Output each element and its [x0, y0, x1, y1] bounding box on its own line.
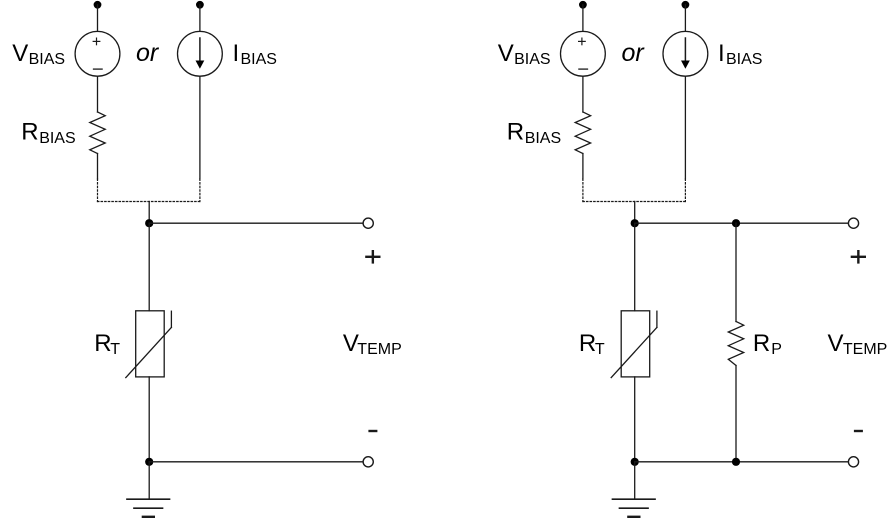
svg-text:BIAS: BIAS	[39, 130, 75, 147]
wire: VBIAS circle to RBIAS	[97, 76, 99, 112]
label + (right)	[852, 251, 865, 262]
ground (left)	[127, 499, 170, 517]
svg-text:P: P	[771, 341, 782, 358]
wire: RT to bottom junction	[148, 377, 150, 462]
thermistor RT (left)	[126, 311, 172, 378]
node E (right bottom junction)	[631, 458, 639, 466]
wire: RBIAS down	[97, 154, 99, 180]
label RT (left)	[94, 330, 120, 358]
wire: dotted left drop (right)	[582, 179, 584, 202]
wire: top junction to + terminal (right)	[635, 222, 849, 224]
node dot: top of VBIAS branch	[94, 1, 102, 9]
label IBIAS (right)	[718, 40, 762, 68]
node B (left bottom junction)	[145, 458, 153, 466]
wire: dotted right drop (right)	[684, 179, 686, 202]
label + (left)	[366, 251, 379, 262]
svg-text:R: R	[21, 118, 38, 145]
voltage source VBIAS (right)	[561, 31, 606, 76]
svg-text:BIAS: BIAS	[726, 51, 762, 68]
terminal + (left, open circle)	[363, 218, 373, 228]
label RBIAS (right)	[507, 118, 561, 147]
svg-text:R: R	[579, 330, 596, 357]
node dot: top of VBIAS branch (right)	[579, 1, 587, 9]
label RT (right)	[579, 330, 605, 358]
resistor RP	[728, 322, 743, 366]
wire: top dot to IBIAS circle (right)	[684, 5, 686, 32]
svg-text:T: T	[110, 341, 120, 358]
label RBIAS (left)	[21, 118, 75, 147]
wire: bracket center to node (right)	[634, 202, 636, 224]
label - (right)	[855, 430, 862, 432]
current source IBIAS (left)	[178, 31, 223, 76]
label - (left)	[370, 430, 377, 432]
wire: RP branch bottom	[735, 366, 737, 462]
resistor RBIAS (right)	[575, 112, 590, 154]
label VTEMP (left)	[343, 330, 402, 358]
wire: junction down to RT	[148, 223, 150, 311]
wire: IBIAS circle down	[199, 76, 201, 179]
wire: RT to bottom junction (right)	[634, 377, 636, 462]
node dot: top of IBIAS branch	[196, 1, 204, 9]
wire: dotted right drop	[199, 179, 201, 202]
node D (RP top junction)	[732, 219, 740, 227]
resistor RBIAS (left)	[90, 112, 105, 154]
wire: top junction to + terminal	[149, 222, 363, 224]
svg-text:BIAS: BIAS	[514, 51, 550, 68]
terminal + (right, open circle)	[848, 218, 858, 228]
svg-text:or: or	[136, 39, 160, 67]
svg-text:V: V	[12, 40, 28, 67]
svg-text:V: V	[828, 330, 844, 357]
node C (right top junction)	[631, 219, 639, 227]
wire: bracket center to node	[148, 202, 150, 224]
wire: bottom junction to ground	[148, 462, 150, 499]
svg-text:T: T	[595, 341, 605, 358]
wire: bottom junction to ground (right)	[634, 462, 636, 499]
node A (left top junction)	[145, 219, 153, 227]
wire: bottom junction to - terminal	[149, 461, 363, 463]
label RP	[753, 330, 782, 358]
svg-text:R: R	[507, 118, 524, 145]
wire: junction down to RT (right)	[634, 223, 636, 311]
wire: RP branch top	[735, 223, 737, 321]
wire: top dot to VBIAS circle (right)	[582, 5, 584, 32]
svg-text:I: I	[233, 40, 240, 67]
wire: RBIAS down (right)	[582, 154, 584, 180]
wire: dotted horizontal bracket (right)	[583, 201, 686, 203]
current source IBIAS (right)	[663, 31, 708, 76]
label VTEMP (right)	[828, 330, 888, 358]
svg-text:BIAS: BIAS	[525, 130, 561, 147]
wire: dotted horizontal bracket	[98, 201, 200, 203]
wire: VBIAS circle to RBIAS (right)	[582, 76, 584, 112]
svg-text:I: I	[718, 40, 725, 67]
node F (RP bottom junction)	[732, 458, 740, 466]
ground (right)	[613, 499, 656, 517]
node dot: top of IBIAS branch (right)	[682, 1, 690, 9]
svg-text:R: R	[94, 330, 111, 357]
svg-text:or: or	[622, 39, 646, 67]
voltage source VBIAS (left)	[75, 31, 120, 76]
svg-text:BIAS: BIAS	[29, 51, 65, 68]
svg-text:V: V	[498, 40, 514, 67]
label VBIAS (left)	[12, 40, 65, 68]
terminal - (right, open circle)	[848, 457, 858, 467]
wire: dotted left drop	[97, 179, 99, 202]
wire: top dot to IBIAS circle	[199, 5, 201, 32]
wire: top dot to VBIAS circle	[97, 5, 99, 32]
wire: IBIAS circle down (right)	[684, 76, 686, 179]
label IBIAS (left)	[233, 40, 277, 68]
svg-text:TEMP: TEMP	[843, 341, 887, 358]
label VBIAS (right)	[498, 40, 551, 68]
terminal - (left, open circle)	[363, 457, 373, 467]
svg-text:R: R	[753, 330, 770, 357]
svg-text:BIAS: BIAS	[241, 51, 277, 68]
wire: bottom junction to - terminal (right)	[635, 461, 849, 463]
svg-text:TEMP: TEMP	[357, 341, 401, 358]
thermistor RT (right)	[611, 311, 657, 378]
